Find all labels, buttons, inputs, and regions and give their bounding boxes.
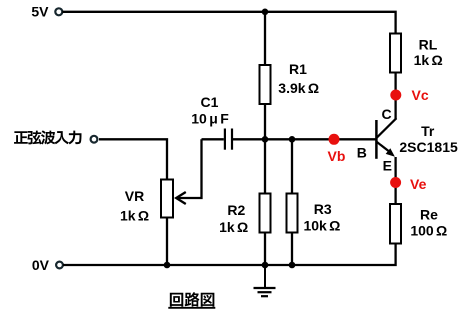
- node Ve: [390, 176, 426, 192]
- svg-text:Vc: Vc: [412, 87, 429, 103]
- node 5V/R1 junction: [262, 9, 269, 16]
- svg-text:10μF: 10μF: [191, 111, 229, 127]
- svg-text:5V: 5V: [31, 4, 49, 20]
- wire R1 top: [264, 12, 266, 65]
- wire R1 bottom: [264, 104, 266, 139]
- svg-text:E: E: [383, 158, 392, 174]
- node VR/0V junction: [164, 262, 171, 269]
- wire R3 bottom: [291, 233, 293, 266]
- svg-text:2SC1815: 2SC1815: [399, 139, 458, 155]
- wire collector: [394, 73, 396, 120]
- wire C1 left lead: [202, 138, 224, 140]
- capacitor C1 10uF: [191, 94, 232, 150]
- svg-text:R1: R1: [289, 61, 307, 77]
- svg-text:Re: Re: [420, 207, 438, 223]
- svg-text:10kΩ: 10kΩ: [303, 218, 340, 234]
- wire 0V rail: [63, 244, 396, 266]
- node base/R1/R2 junction: [262, 136, 269, 143]
- wire base node line: [233, 138, 376, 140]
- label sine-wave input: [14, 131, 28, 144]
- wiper arrow: [176, 192, 186, 204]
- resistor Re 100: [390, 204, 447, 244]
- svg-text:VR: VR: [125, 188, 144, 204]
- potentiometer VR 1k: [120, 180, 173, 224]
- resistor R2 1k: [219, 194, 270, 236]
- resistor R1 3.9k: [260, 61, 320, 104]
- svg-text:3.9kΩ: 3.9kΩ: [278, 80, 319, 96]
- svg-text:R3: R3: [314, 201, 332, 217]
- svg-text:RL: RL: [419, 37, 438, 53]
- svg-text:0V: 0V: [32, 257, 50, 273]
- svg-text:C: C: [381, 106, 391, 122]
- svg-text:Vb: Vb: [328, 148, 346, 164]
- node base/R3 junction: [289, 136, 296, 143]
- 0V terminal: [32, 257, 63, 273]
- svg-text:R2: R2: [227, 202, 245, 218]
- wire input to VR: [99, 139, 167, 179]
- svg-text:1kΩ: 1kΩ: [414, 52, 443, 68]
- node Vc: [390, 87, 429, 103]
- wire R3 top: [291, 139, 293, 193]
- svg-text:Tr: Tr: [421, 123, 435, 139]
- node R3/0V junction: [289, 262, 296, 269]
- svg-text:C1: C1: [201, 94, 219, 110]
- ground: [254, 265, 276, 296]
- node R2/0V junction: [262, 262, 269, 269]
- caption 回路図: [170, 293, 183, 307]
- wire R2 bottom: [264, 233, 266, 266]
- node Vb: [328, 134, 346, 164]
- wire VR bottom: [166, 218, 168, 266]
- wire 5V rail: [62, 12, 395, 34]
- wire emitter: [394, 157, 396, 204]
- resistor RL 1k: [390, 34, 443, 73]
- wire wiper feed: [177, 139, 202, 198]
- transistor Tr 2SC1815: [357, 106, 458, 174]
- svg-text:B: B: [357, 145, 367, 161]
- svg-text:100Ω: 100Ω: [410, 223, 447, 239]
- 5V terminal: [31, 4, 62, 20]
- resistor R3 10k: [287, 194, 341, 234]
- svg-text:1kΩ: 1kΩ: [219, 219, 248, 235]
- wire R2 top: [264, 139, 266, 193]
- svg-text:1kΩ: 1kΩ: [120, 208, 149, 224]
- svg-text:Ve: Ve: [410, 176, 427, 192]
- input terminal sine-wave: [91, 136, 98, 143]
